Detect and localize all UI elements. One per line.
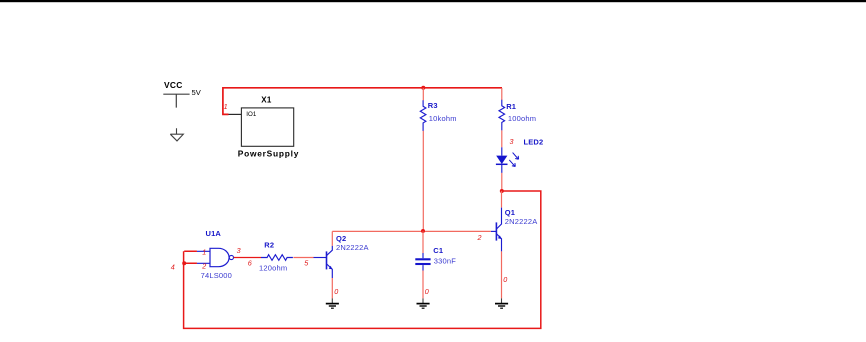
- resistor R2: [261, 255, 293, 261]
- svg-text:6: 6: [248, 259, 252, 268]
- svg-text:U1A: U1A: [206, 229, 222, 238]
- svg-text:0: 0: [425, 287, 429, 296]
- LED2: [496, 147, 519, 173]
- svg-text:330nF: 330nF: [434, 257, 456, 266]
- svg-text:R1: R1: [506, 102, 516, 111]
- svg-text:Q1: Q1: [505, 208, 515, 217]
- wire R3 bottom to net 2: [422, 131, 424, 231]
- page top border: [0, 0, 866, 2]
- junction at left rail pin2: [182, 261, 186, 265]
- svg-text:2N2222A: 2N2222A: [505, 217, 538, 226]
- wire C1 to ground: [422, 271, 424, 299]
- svg-text:2: 2: [201, 262, 206, 271]
- svg-text:2: 2: [477, 233, 482, 242]
- wire top to R3: [422, 88, 424, 100]
- svg-text:74LS000: 74LS000: [201, 271, 232, 280]
- transistor Q2: [314, 246, 333, 278]
- svg-text:X1: X1: [261, 96, 272, 105]
- wire junction to right rail: [184, 191, 541, 328]
- wire top to R1: [501, 88, 503, 100]
- subcircuit X1 PowerSupply: [229, 108, 294, 146]
- svg-text:IO1: IO1: [246, 111, 257, 118]
- svg-text:R2: R2: [264, 241, 274, 250]
- svg-text:LED2: LED2: [524, 138, 544, 147]
- svg-text:3: 3: [510, 137, 514, 146]
- wire Q2 collector up to net 2: [331, 231, 333, 245]
- wire net 2: Q2 collector to C1 to Q1 base: [332, 230, 491, 232]
- wire VCC net: X1 pin up and across top: [223, 88, 502, 115]
- svg-text:PowerSupply: PowerSupply: [238, 148, 299, 158]
- junction at R3 top: [421, 86, 425, 90]
- svg-text:0: 0: [503, 275, 507, 284]
- NAND gate U1A: [197, 248, 234, 266]
- svg-text:0: 0: [334, 287, 338, 296]
- junction at LED bottom: [500, 189, 504, 193]
- wire C1 junction down: [422, 231, 424, 253]
- svg-text:1: 1: [202, 248, 206, 257]
- wire inputs to left rail (net 4): [184, 251, 197, 263]
- svg-text:4: 4: [171, 263, 175, 272]
- wire Q1 emitter to ground: [501, 251, 503, 298]
- power VCC symbol: [163, 94, 189, 107]
- ground (Q2 emitter): [326, 298, 339, 308]
- capacitor C1: [415, 253, 430, 271]
- svg-text:3: 3: [237, 246, 241, 255]
- svg-text:1: 1: [224, 102, 228, 111]
- transistor Q1: [491, 208, 502, 252]
- svg-text:100ohm: 100ohm: [508, 114, 536, 123]
- svg-text:2N2222A: 2N2222A: [336, 243, 369, 252]
- wire R1 to LED2 (net 3): [501, 130, 503, 147]
- svg-text:5: 5: [304, 259, 309, 268]
- svg-text:10kohm: 10kohm: [429, 114, 457, 123]
- svg-text:5V: 5V: [192, 88, 202, 97]
- wire junction down to Q1 collector: [501, 191, 503, 208]
- resistor R3: [420, 100, 426, 131]
- svg-text:VCC: VCC: [164, 80, 183, 90]
- wire gate output (net 6): [234, 257, 261, 259]
- svg-text:120ohm: 120ohm: [259, 264, 287, 273]
- ground (Q1 emitter): [495, 298, 508, 308]
- junction at C1 top: [421, 229, 425, 233]
- wire R2 to Q2 base (net 5): [293, 257, 313, 259]
- ground (under VCC): [170, 128, 183, 141]
- wire LED2 to junction: [501, 173, 503, 191]
- ground (C1): [417, 298, 430, 308]
- svg-text:C1: C1: [433, 246, 443, 255]
- wire Q2 emitter to ground: [331, 278, 333, 298]
- svg-text:R3: R3: [428, 101, 438, 110]
- resistor R1: [499, 100, 505, 131]
